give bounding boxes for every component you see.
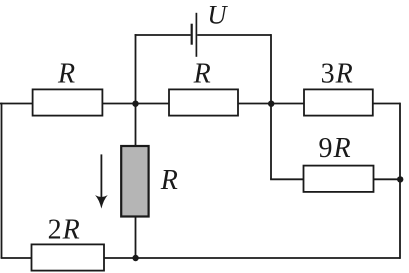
svg-text:9R: 9R bbox=[319, 133, 351, 164]
svg-text:2R: 2R bbox=[48, 214, 80, 245]
svg-text:R: R bbox=[57, 59, 75, 90]
svg-text:U: U bbox=[207, 0, 228, 30]
svg-text:R: R bbox=[160, 165, 178, 196]
svg-text:R: R bbox=[193, 59, 211, 90]
svg-text:3R: 3R bbox=[321, 59, 353, 90]
